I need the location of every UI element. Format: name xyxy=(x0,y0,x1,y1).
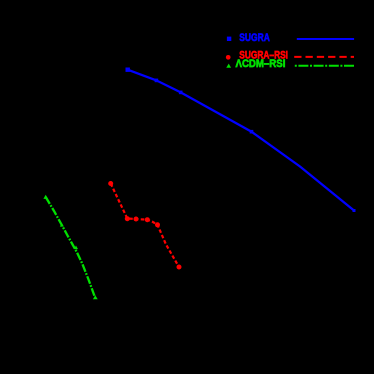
SUGRA curve (blue solid) xyxy=(128,70,354,211)
legend line SUGRA (blue solid) xyxy=(297,38,354,40)
legend line SUGRA-RSI (red dashed) xyxy=(294,56,354,58)
LCDM-RSI data point 2 (triangle) xyxy=(60,223,64,227)
legend line LCDM-RSI (green dash-dot) xyxy=(295,65,354,67)
legend marker SUGRA-RSI (red circle) xyxy=(226,55,231,60)
legend marker LCDM-RSI (green triangle) xyxy=(226,64,231,68)
SUGRA data point 4 (square) xyxy=(250,130,254,134)
SUGRA data point 5 (square) xyxy=(353,209,356,212)
SUGRA-RSI data point 2 (circle) xyxy=(125,216,130,221)
SUGRA data point 1 (square) xyxy=(126,68,130,72)
SUGRA-RSI curve (red dashed) xyxy=(111,184,179,268)
SUGRA-RSI data point 5 (circle) xyxy=(155,222,160,227)
SUGRA data point 2 (square) xyxy=(155,79,159,83)
SUGRA-RSI data point 6 (circle) xyxy=(177,265,182,270)
LCDM-RSI data point 4 (triangle) xyxy=(93,295,98,299)
legend marker SUGRA (blue square) xyxy=(227,37,231,41)
LCDM-RSI data point 1 (triangle) xyxy=(43,195,48,199)
SUGRA-RSI data point 3 (circle) xyxy=(134,217,139,222)
svg-text:SUGRA: SUGRA xyxy=(239,32,270,44)
LCDM-RSI curve (green dash-dot) xyxy=(46,197,95,296)
svg-text:ΛCDM–RSI: ΛCDM–RSI xyxy=(236,58,286,70)
SUGRA data point 3 (square) xyxy=(179,91,183,95)
SUGRA-RSI data point 4 (circle) xyxy=(145,217,150,222)
SUGRA-RSI data point 1 (circle) xyxy=(108,181,113,186)
LCDM-RSI data point 3 (triangle) xyxy=(74,246,78,250)
